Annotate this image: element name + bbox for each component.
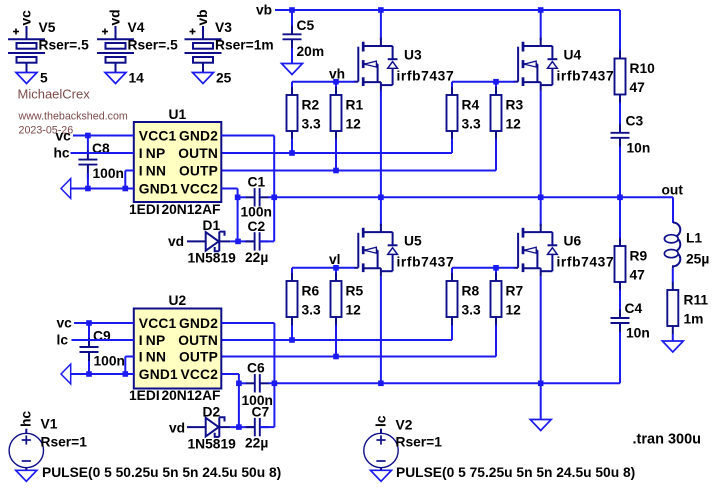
svg-text:OUTN: OUTN: [178, 146, 218, 161]
ground bus gnd: [530, 420, 551, 431]
resistor R8: [447, 273, 458, 325]
nmos transistor U6: [514, 224, 558, 277]
wire OUTP net U2: [222, 325, 497, 357]
wire U6 gate net: [452, 268, 515, 274]
wire U5 drain wire: [380, 197, 382, 226]
wire C8 top stub: [87, 136, 89, 152]
wire vc to VCC1 (U2): [74, 322, 134, 324]
capacitor C4: [611, 309, 630, 337]
svg-text:lc: lc: [57, 333, 69, 348]
ground R11 gnd: [662, 341, 683, 352]
svg-text:C7: C7: [252, 405, 270, 420]
junction out/R10C3: [617, 195, 623, 201]
svg-text:R5: R5: [346, 284, 364, 299]
wire C8 bottom stub: [87, 174, 89, 189]
wire C9 top stub: [88, 323, 90, 339]
junction vl/R5 top: [333, 265, 339, 271]
svg-text:C3: C3: [626, 114, 644, 129]
svg-text:VCC2: VCC2: [180, 367, 218, 382]
junction out/U3-U5: [378, 195, 384, 201]
junction U4 gate/R3 top: [493, 79, 499, 85]
svg-text:R6: R6: [302, 284, 320, 299]
wire U3 drain wire: [380, 10, 382, 40]
wire R9 to C4: [619, 290, 621, 311]
junction bus/VCC2 U2: [236, 381, 242, 387]
svg-text:irfb7437: irfb7437: [557, 69, 615, 84]
resistor R1: [331, 87, 342, 139]
svg-text:vd: vd: [169, 421, 185, 436]
wire L1 to R11: [672, 269, 674, 283]
junction OUTP2/R5: [333, 354, 339, 360]
svg-text:V4: V4: [128, 20, 145, 35]
svg-text:www.thebackshed.com: www.thebackshed.com: [18, 110, 128, 122]
svg-text:12: 12: [346, 117, 362, 132]
wire vb bus: [275, 10, 620, 51]
wire net vh (U3 gate): [292, 82, 355, 88]
wire C2 right up: [260, 197, 275, 241]
wire U6 source wire low: [540, 277, 542, 384]
svg-text:R9: R9: [630, 249, 648, 264]
svg-text:L1: L1: [686, 231, 702, 246]
svg-text:irfb7437: irfb7437: [397, 69, 455, 84]
svg-text:U4: U4: [564, 48, 582, 63]
svg-text:I NN: I NN: [139, 163, 166, 178]
wire C5 stub: [291, 10, 293, 26]
resistor R2: [287, 87, 298, 139]
resistor R9: [615, 238, 626, 290]
junction bus/U5 source: [378, 381, 384, 387]
wire gnd bus: [239, 382, 620, 384]
junction vb/U4 drain: [538, 7, 544, 13]
wire vc to VCC1: [73, 135, 134, 137]
junction GND1/C9: [86, 371, 92, 377]
svg-text:GND1: GND1: [139, 181, 178, 196]
ground V4 gnd: [105, 73, 126, 84]
svg-text:Rser=1m: Rser=1m: [215, 38, 274, 53]
svg-text:GND2: GND2: [179, 316, 218, 331]
svg-text:1EDI: 1EDI: [129, 202, 160, 217]
wire U3 source wire: [380, 91, 382, 198]
svg-text:PULSE(0 5 75.25u 5n 5n 24.5u 5: PULSE(0 5 75.25u 5n 5n 24.5u 50u 8): [396, 465, 635, 480]
junction U6 gate/R7 top: [493, 265, 499, 271]
svg-text:10n: 10n: [626, 326, 650, 341]
svg-text:Rser=.5: Rser=.5: [39, 38, 90, 53]
wire lc to INP: [72, 339, 134, 341]
capacitor C2: [246, 232, 269, 250]
voltage source V1: [9, 429, 43, 471]
junction OUTN/R2: [289, 150, 295, 156]
svg-text:Rser=.5: Rser=.5: [128, 38, 179, 53]
junction GND1/C8: [85, 186, 91, 192]
diode D1: [187, 232, 230, 252]
svg-text:C4: C4: [625, 301, 643, 316]
svg-text:VCC2: VCC2: [180, 181, 218, 196]
svg-text:OUTP: OUTP: [179, 349, 218, 364]
wire U4 source wire: [540, 91, 542, 198]
port U2 GND1 port: [61, 364, 71, 384]
svg-text:C6: C6: [247, 361, 265, 376]
junction bus/U6 source: [538, 381, 544, 387]
wire U5 source wire low: [380, 277, 382, 384]
wire U6 drain wire: [540, 197, 542, 226]
svg-text:irfb7437: irfb7437: [557, 255, 615, 270]
wire VCC2 stub U2: [222, 374, 239, 383]
svg-text:47: 47: [630, 80, 646, 95]
svg-text:R1: R1: [346, 98, 364, 113]
nmos transistor U3: [354, 38, 398, 91]
svg-text:R7: R7: [506, 284, 524, 299]
svg-text:100n: 100n: [241, 205, 272, 220]
junction GND1/INN: [123, 186, 129, 192]
svg-text:OUTP: OUTP: [179, 163, 218, 178]
voltage source V2: [364, 429, 398, 471]
wire boot node down U2: [238, 383, 240, 427]
svg-text:vd: vd: [168, 234, 184, 249]
resistor R3: [491, 87, 502, 139]
wire out net: [238, 197, 673, 223]
junction OUTP/R1: [333, 168, 339, 174]
wire GND1 net U1: [71, 188, 134, 190]
svg-text:25µ: 25µ: [686, 252, 709, 267]
svg-text:R3: R3: [506, 98, 524, 113]
capacitor C9: [80, 338, 99, 366]
capacitor C1: [246, 188, 269, 206]
svg-text:R2: R2: [302, 98, 320, 113]
junction VCC1/C9: [86, 320, 92, 326]
svg-text:C9: C9: [93, 329, 111, 344]
svg-text:3.3: 3.3: [462, 303, 482, 318]
svg-text:out: out: [662, 183, 684, 198]
wire out to R9: [619, 197, 621, 239]
svg-text:100n: 100n: [94, 354, 125, 369]
svg-text:R4: R4: [462, 98, 480, 113]
svg-text:1N5819: 1N5819: [188, 437, 237, 452]
gate-driver IC U2: [134, 309, 222, 389]
svg-text:GND1: GND1: [139, 367, 178, 382]
junction GND1/INN U2: [123, 371, 129, 377]
wire OUTN net U2: [222, 325, 453, 340]
junction D2/C7 node: [236, 424, 242, 430]
svg-text:3.3: 3.3: [302, 117, 322, 132]
svg-text:10n: 10n: [627, 141, 651, 156]
svg-text:20N12AF: 20N12AF: [161, 388, 220, 403]
svg-text:vc: vc: [57, 316, 73, 331]
svg-text:I NN: I NN: [139, 349, 166, 364]
wire R10 to C3: [619, 103, 621, 126]
wire INN stub: [125, 171, 134, 189]
svg-text:vl: vl: [329, 252, 341, 267]
svg-text:R10: R10: [630, 61, 656, 76]
svg-text:VCC1: VCC1: [139, 316, 177, 331]
svg-text:R11: R11: [684, 293, 709, 308]
svg-text:D2: D2: [203, 405, 221, 420]
wire GND2 U2 column: [222, 323, 275, 427]
capacitor C7: [246, 418, 269, 436]
voltage source V4 (battery): [97, 26, 134, 73]
inductor L1: [664, 223, 680, 269]
capacitor C8: [78, 151, 97, 179]
svg-text:12: 12: [506, 303, 522, 318]
resistor R6: [287, 273, 298, 325]
svg-text:1m: 1m: [684, 312, 704, 327]
wire C3 to out: [619, 147, 621, 198]
capacitor C5: [283, 25, 302, 53]
junction out/VCC2: [235, 195, 241, 201]
svg-text:D1: D1: [203, 218, 221, 233]
svg-text:3.3: 3.3: [302, 303, 322, 318]
svg-text:V2: V2: [396, 418, 413, 433]
wire INN stub U2: [125, 357, 134, 375]
resistor R4: [447, 87, 458, 139]
svg-text:I NP: I NP: [139, 333, 166, 348]
ground C5 gnd: [282, 64, 303, 75]
svg-text:Rser=1: Rser=1: [396, 435, 443, 450]
svg-text:25: 25: [216, 71, 232, 86]
svg-text:R8: R8: [462, 284, 480, 299]
svg-text:irfb7437: irfb7437: [397, 255, 455, 270]
junction VCC1/C8: [85, 133, 91, 139]
svg-text:20N12AF: 20N12AF: [161, 202, 220, 217]
capacitor C3: [611, 124, 630, 152]
svg-text:22µ: 22µ: [245, 436, 268, 451]
wire GND2 to out column: [222, 136, 275, 198]
wire boot node down: [237, 197, 239, 241]
svg-text:vb: vb: [256, 2, 272, 17]
junction vh/R1 top: [333, 79, 339, 85]
svg-text:PULSE(0 5 50.25u 5n 5n 24.5u 5: PULSE(0 5 50.25u 5n 5n 24.5u 50u 8): [42, 465, 281, 480]
resistor R7: [491, 273, 502, 325]
capacitor C6: [246, 374, 269, 392]
svg-text:V3: V3: [215, 20, 232, 35]
ground V2 gnd: [371, 470, 392, 481]
wire net vl (U5 gate): [292, 268, 355, 274]
svg-text:12: 12: [506, 117, 522, 132]
svg-text:22µ: 22µ: [245, 250, 268, 265]
voltage source V5 (battery): [8, 26, 45, 73]
wire C4 to bus: [619, 332, 621, 383]
wire VCC2 stub: [222, 189, 238, 198]
ground V5 gnd: [16, 73, 37, 84]
svg-text:U2: U2: [169, 293, 187, 308]
junction D1/C2 node: [235, 239, 241, 245]
wire hc to INP: [71, 152, 134, 154]
svg-text:vd: vd: [108, 9, 123, 25]
wire OUTP net U1: [222, 139, 497, 171]
svg-text:U3: U3: [404, 48, 422, 63]
junction out/U4-U6: [538, 195, 544, 201]
svg-text:VCC1: VCC1: [139, 128, 177, 143]
voltage source V3 (battery): [185, 26, 222, 73]
svg-text:lc: lc: [373, 415, 388, 427]
svg-text:U5: U5: [404, 234, 422, 249]
junction bus/x274: [272, 381, 278, 387]
svg-text:OUTN: OUTN: [178, 333, 218, 348]
svg-text:C5: C5: [297, 18, 315, 33]
svg-text:V5: V5: [39, 20, 56, 35]
wire GND1 net U2: [71, 373, 134, 375]
svg-text:.tran 300u: .tran 300u: [633, 432, 702, 448]
svg-text:C1: C1: [248, 175, 266, 190]
svg-text:100n: 100n: [93, 166, 124, 181]
resistor R10: [615, 51, 626, 103]
svg-text:1EDI: 1EDI: [129, 388, 160, 403]
svg-text:20m: 20m: [297, 44, 325, 59]
wire bus gnd stem: [540, 383, 542, 419]
wire C9 bottom stub: [88, 361, 90, 374]
svg-text:hc: hc: [19, 411, 34, 427]
svg-text:12: 12: [346, 303, 362, 318]
wire U4 gate net: [452, 82, 515, 88]
svg-text:vb: vb: [195, 9, 210, 25]
nmos transistor U5: [354, 224, 398, 277]
gate-driver IC U1: [134, 122, 222, 202]
resistor R11: [667, 282, 678, 334]
svg-text:5: 5: [40, 71, 48, 86]
svg-text:I NP: I NP: [139, 146, 166, 161]
nmos transistor U4: [514, 38, 558, 91]
svg-text:vc: vc: [56, 129, 72, 144]
wire OUTN net U1: [222, 139, 453, 153]
svg-text:C2: C2: [248, 219, 266, 234]
junction OUTN2/R6: [289, 337, 295, 343]
svg-text:hc: hc: [54, 146, 70, 161]
svg-text:1N5819: 1N5819: [188, 251, 237, 266]
wire R11 to gnd: [672, 334, 674, 341]
svg-text:Rser=1: Rser=1: [41, 435, 88, 450]
junction vb/U3 drain: [378, 7, 384, 13]
svg-text:MichaelCrex: MichaelCrex: [18, 86, 91, 101]
junction vb/C5: [289, 7, 295, 13]
svg-text:U1: U1: [169, 107, 187, 122]
ground V3 gnd: [193, 73, 214, 84]
svg-text:47: 47: [630, 268, 646, 283]
svg-text:V1: V1: [41, 417, 58, 432]
svg-text:vc: vc: [19, 10, 34, 26]
ground V1 gnd: [16, 470, 37, 481]
port U1 GND1 port: [61, 179, 71, 199]
diode D2: [187, 417, 230, 437]
wire D2 to C7: [230, 426, 254, 428]
wire C7 right up: [260, 426, 275, 428]
wire D1 to C2: [230, 240, 254, 242]
junction out/x274: [271, 195, 277, 201]
svg-text:U6: U6: [564, 234, 582, 249]
resistor R5: [331, 273, 342, 325]
wire U4 drain wire: [540, 10, 542, 40]
svg-text:14: 14: [129, 71, 145, 86]
svg-text:GND2: GND2: [179, 128, 218, 143]
svg-text:3.3: 3.3: [462, 117, 482, 132]
wire C5 to gnd: [291, 48, 293, 63]
